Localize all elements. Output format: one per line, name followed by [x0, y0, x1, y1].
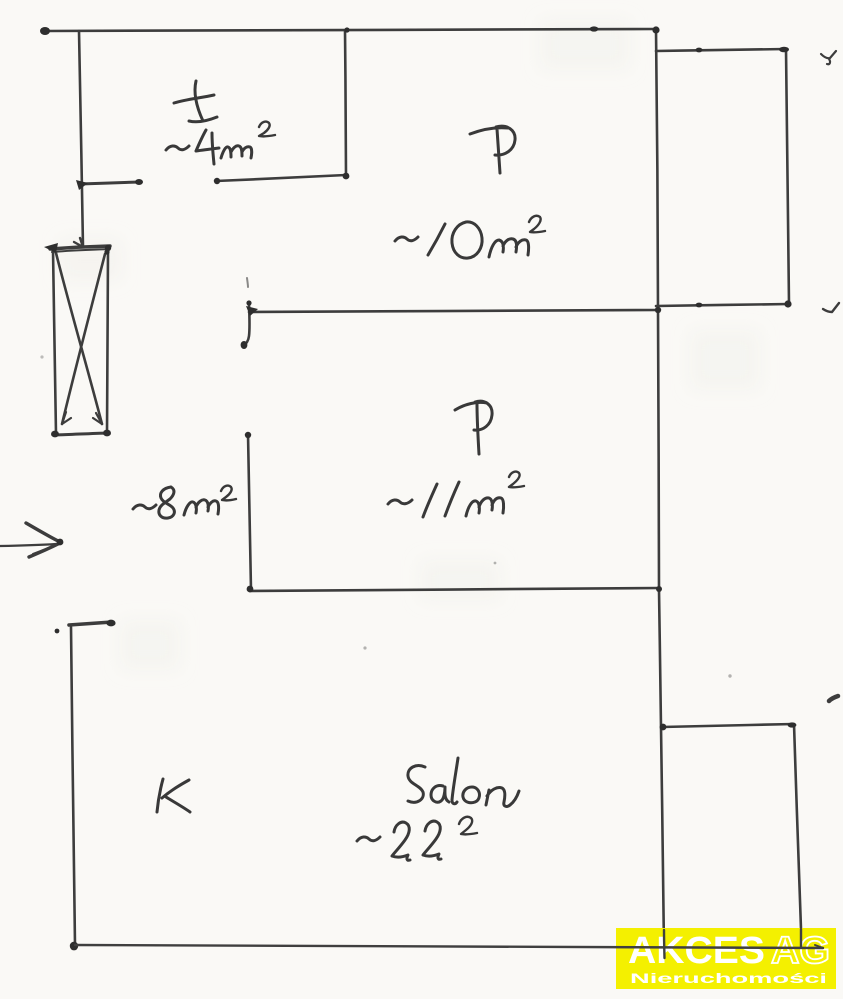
bottom wall end arrow: [815, 945, 823, 948]
blob top-right corner: [652, 26, 659, 33]
window box top edge: [50, 246, 110, 249]
faint pen mark above tick: [247, 278, 248, 287]
label K kitchen: [157, 779, 163, 812]
blob window bottom-left: [51, 431, 59, 438]
dot salon corner left: [55, 629, 60, 634]
window box bottom edge: [55, 433, 108, 435]
label ~8m2: [133, 505, 156, 509]
dot balcony bottom edge mid: [696, 303, 703, 308]
label L-bathroom letter: [195, 81, 203, 121]
blob room2 top wall right: [655, 307, 661, 313]
wall left upper: [79, 31, 83, 247]
wall salon left: [71, 627, 75, 945]
wall room2 bottom: [250, 588, 659, 591]
dot window right top: [104, 249, 109, 254]
window diagonal 2 arrowhead: [62, 412, 71, 424]
salon corner bar: [69, 622, 112, 625]
blob room2 bottom wall right: [656, 586, 662, 592]
faint speck 4: [40, 355, 43, 358]
blob salon bar right end: [106, 620, 115, 627]
blob balcony bottom-right corner: [784, 300, 791, 307]
blob window top-right: [105, 245, 111, 251]
blob jamb tick bottom: [241, 341, 248, 349]
check mark B: [823, 303, 839, 312]
wall room2 top: [249, 310, 658, 312]
small dash right edge: [829, 696, 838, 701]
blob salon bottom-left corner: [70, 942, 78, 951]
logo yellow box: [616, 928, 836, 989]
handwritten labels: [133, 81, 545, 860]
entrance arrow shaft: [0, 544, 56, 546]
balcony bottom: right edge: [794, 724, 801, 929]
wall top: [45, 29, 656, 31]
blob top wall left end: [40, 27, 50, 35]
wall right main: [656, 29, 664, 950]
entrance arrow upper barb: [26, 523, 60, 542]
blob balcony top-right corner: [779, 47, 789, 53]
balcony top: bottom edge: [656, 304, 789, 306]
svg-text:Nieruchomości: Nieruchomości: [630, 970, 827, 986]
dot bathroom bottom wall left end: [214, 178, 220, 184]
blob room2 left wall bottom: [247, 586, 254, 593]
blob arrow tip: [57, 539, 64, 546]
label ~22sup2: [357, 837, 380, 841]
blob room2 left wall top: [245, 432, 251, 438]
blob door stub right: [135, 179, 143, 185]
label P room2: [455, 401, 492, 454]
window box left edge: [53, 250, 56, 434]
wall stub arrowhead into window: [74, 238, 83, 247]
faint speck 1: [494, 562, 497, 565]
wall salon bottom crossing logo: [75, 929, 823, 958]
svg-text:AKCES: AKCES: [628, 930, 765, 972]
label ~11m2: [388, 500, 412, 504]
wall bathroom bottom right part: [216, 175, 346, 181]
blob jamb tick top: [246, 306, 258, 316]
entrance arrow lower barb: [29, 543, 60, 557]
wall bathroom right: [345, 30, 346, 176]
blob window bottom-right: [103, 430, 111, 437]
logo AKCES AG: [616, 928, 836, 989]
wall right main into logo: [663, 930, 666, 958]
balcony top: top edge: [656, 49, 786, 51]
window diagonal 2: [62, 254, 105, 424]
check mark A: [821, 51, 836, 64]
balcony top: right edge: [786, 49, 789, 304]
label ~4m2: [166, 146, 189, 150]
balcony2 right edge into logo: [800, 929, 802, 947]
faint speck 3: [728, 674, 731, 677]
blob balcony2 top-left: [660, 724, 667, 731]
blob bathroom wall bottom: [343, 173, 350, 180]
label ~10m2: [395, 237, 418, 241]
wall bathroom bottom left part: [80, 182, 140, 184]
wall room2 left: [248, 434, 251, 590]
dot balcony top edge mid: [696, 48, 703, 53]
window box right edge: [107, 251, 108, 433]
balcony bottom: top edge: [662, 724, 794, 727]
window diagonal 1: [56, 253, 102, 424]
blob balcony2 top-right: [788, 722, 797, 727]
faint speck 2: [363, 646, 366, 649]
label Salon: [408, 766, 425, 803]
dot top wall at bathroom: [344, 27, 349, 32]
blob window top-left: [44, 243, 58, 253]
label P room1: [470, 126, 515, 173]
room2 door jamb tick: [244, 304, 250, 345]
dot top wall right: [590, 26, 599, 31]
blob door stub left: [76, 180, 88, 190]
window diagonal 1 arrowhead: [93, 413, 102, 424]
